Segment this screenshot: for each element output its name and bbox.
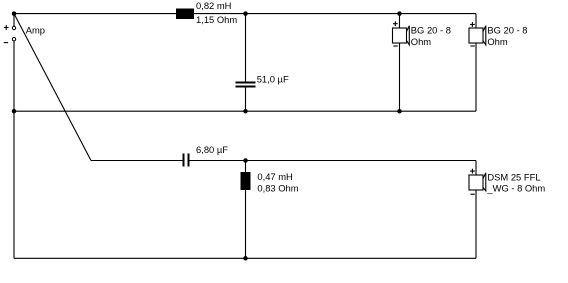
wire capacitor C1 branch vertical <box>245 14 247 112</box>
svg-text:51,0 µF: 51,0 µF <box>257 74 289 85</box>
label LS1 Ohm <box>411 36 432 47</box>
junction node C1 top <box>243 11 248 16</box>
inductor L2 body <box>241 172 251 190</box>
speaker LS1 BG 20 symbol <box>393 26 410 45</box>
svg-text:0,83 Ohm: 0,83 Ohm <box>257 183 298 194</box>
speaker LS1 minus mark <box>393 45 397 47</box>
wire tweeter top rail net2 <box>91 160 476 162</box>
svg-text:Ohm: Ohm <box>487 36 508 47</box>
svg-text:BG 20 - 8: BG 20 - 8 <box>411 25 451 36</box>
junction node bottom-left <box>12 109 17 114</box>
junction node top-left amp plus <box>12 11 17 16</box>
svg-text:DSM 25 FFL: DSM 25 FFL <box>487 171 540 182</box>
junction node C1 bottom <box>243 109 248 114</box>
wire speaker LS3 branch vertical <box>475 161 477 259</box>
wire bottom rail net1 return <box>14 110 476 112</box>
svg-text:Amp: Amp <box>26 25 45 36</box>
junction node L2 top <box>243 158 248 163</box>
svg-text:1,15 Ohm: 1,15 Ohm <box>196 14 237 25</box>
junction node LS1 top <box>397 11 402 16</box>
junction node LS1 bottom <box>397 109 402 114</box>
wire left vertical amp minus bus <box>13 41 15 258</box>
voltage source Amp terminals <box>12 26 15 41</box>
speaker LS1 plus mark <box>393 21 398 26</box>
label C2 value 6,80 µF <box>196 144 228 155</box>
inductor L1 body <box>176 9 194 20</box>
wire tweeter bottom rail net2 return <box>14 257 476 259</box>
amp plus mark <box>4 25 9 30</box>
capacitor C2 plates <box>184 154 189 167</box>
svg-text:BG 20 - 8: BG 20 - 8 <box>487 25 527 36</box>
junction node L2 bottom <box>243 256 248 261</box>
svg-text:0,47 mH: 0,47 mH <box>257 171 292 182</box>
amp minus mark <box>4 42 8 44</box>
label L1 resistance 1,15 Ohm <box>196 14 237 25</box>
svg-text:Ohm: Ohm <box>411 36 432 47</box>
label L2 resistance 0,83 Ohm <box>257 183 298 194</box>
wire speaker LS2 branch vertical <box>475 14 477 112</box>
label L2 value 0,47 mH <box>257 171 292 182</box>
capacitor C1 plates <box>236 83 256 87</box>
wire inductor L2 branch vertical <box>245 161 247 259</box>
svg-text:0,82 mH: 0,82 mH <box>196 0 231 11</box>
label C1 value 51,0 µF <box>257 74 289 85</box>
wire speaker LS1 branch vertical <box>399 14 401 112</box>
speaker LS2 plus mark <box>470 22 475 27</box>
label LS2 BG 20 - 8 <box>487 25 527 36</box>
speaker LS3 plus mark <box>470 169 475 174</box>
label Amp <box>26 25 45 36</box>
label LS3 _WG - 8 Ohm <box>486 183 545 194</box>
speaker LS2 BG 20 symbol <box>469 26 486 45</box>
label LS1 BG 20 - 8 <box>411 25 451 36</box>
wire top rail net1 (amp + to woofers) <box>14 13 476 15</box>
svg-text:6,80 µF: 6,80 µF <box>196 144 228 155</box>
wire amp plus stub <box>13 14 15 26</box>
speaker LS3 DSM 25 FFL symbol <box>469 173 486 191</box>
label L1 value 0,82 mH <box>196 0 231 11</box>
svg-text:_WG - 8 Ohm: _WG - 8 Ohm <box>486 183 545 194</box>
label LS2 Ohm <box>487 36 508 47</box>
label LS3 DSM 25 FFL <box>487 171 540 182</box>
speaker LS3 minus mark <box>470 193 474 195</box>
wire diagonal amp plus to tweeter branch <box>14 14 91 161</box>
speaker LS2 minus mark <box>470 45 474 47</box>
